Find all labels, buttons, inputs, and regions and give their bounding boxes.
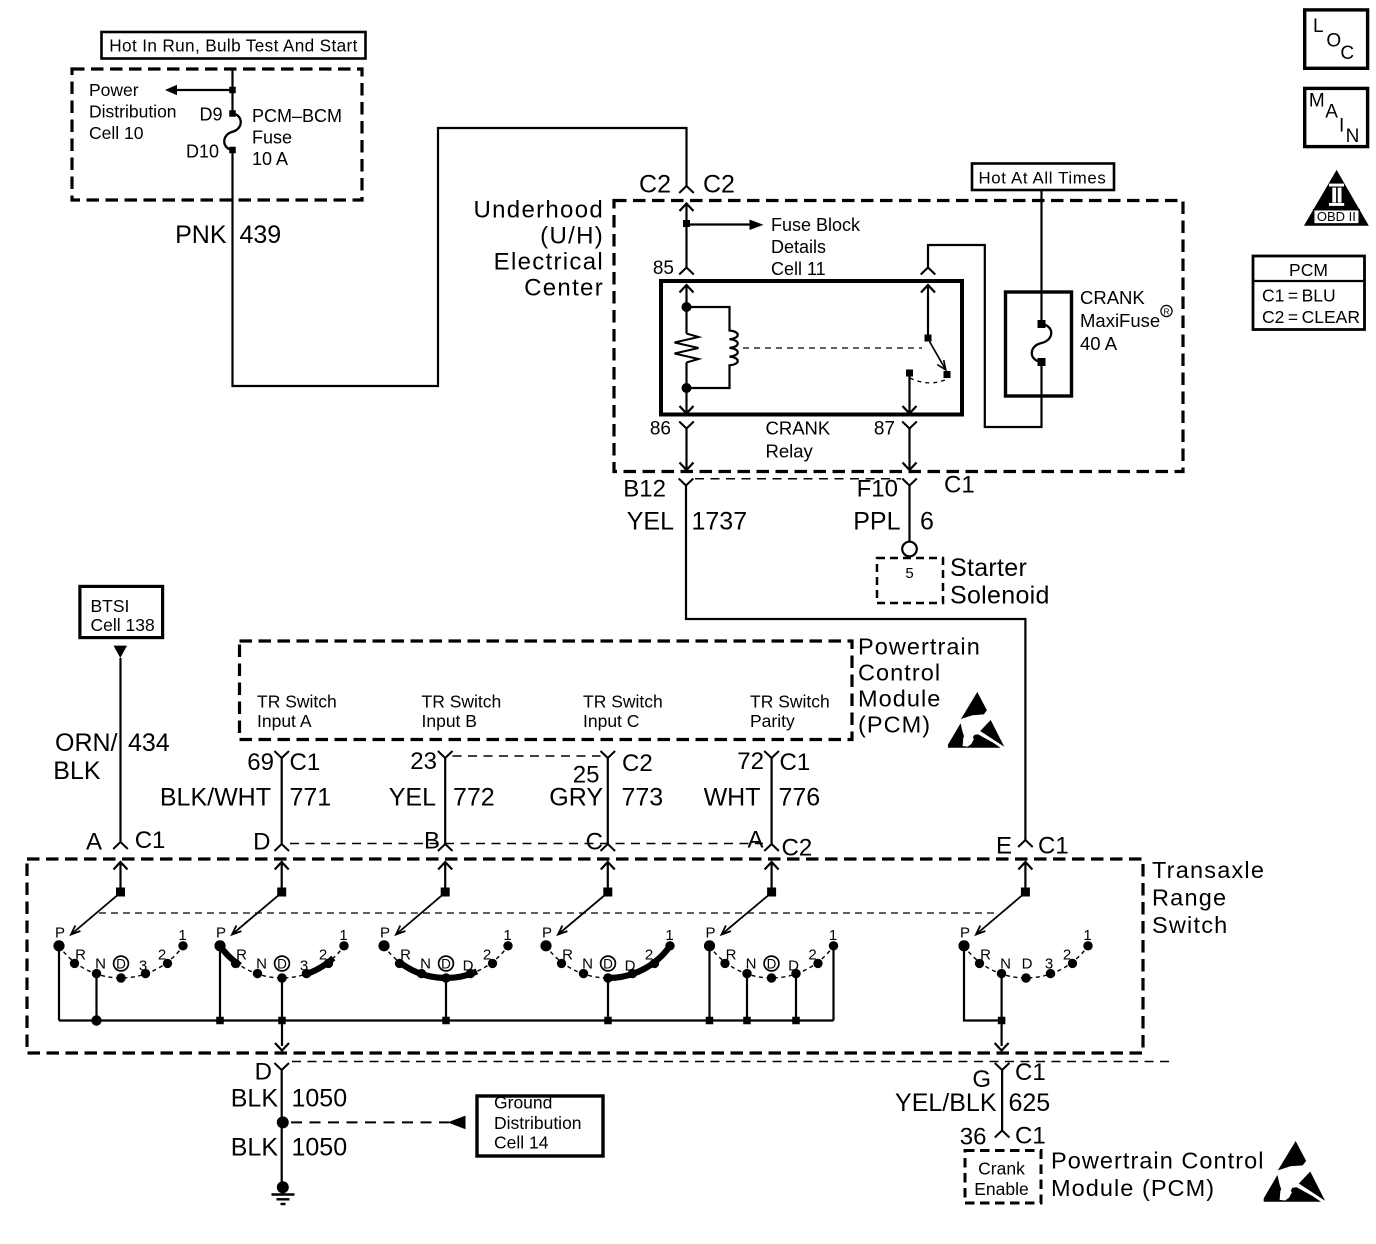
arrowhead exit 86 — [680, 463, 694, 471]
wire YEL/BLK 625 — [1001, 1070, 1003, 1131]
svg-text:C1: C1 — [944, 472, 975, 499]
wire WHT 776 — [770, 758, 772, 844]
svg-text:D: D — [463, 958, 474, 975]
node fuse block tap — [683, 220, 690, 227]
title box Hot In Run, Bulb Test And Start — [102, 32, 366, 59]
label PCM-BCM Fuse 10 A — [252, 106, 342, 169]
terminal D10 — [229, 147, 236, 154]
transaxle range switch dashed box — [27, 859, 1143, 1053]
dashed connector line C2 row — [453, 755, 601, 757]
arrowhead into U/H center — [680, 204, 694, 212]
TRS S2 (input A) wiper arm — [232, 895, 278, 934]
svg-text:TR Switch: TR Switch — [422, 692, 502, 712]
svg-text:D: D — [277, 957, 287, 972]
svg-text:1: 1 — [178, 927, 186, 944]
node S2 P bus junction — [216, 1017, 224, 1025]
node ground splice — [277, 1116, 289, 1128]
label Powertrain Control Module (PCM) — [858, 634, 981, 738]
svg-text:23: 23 — [410, 748, 437, 775]
arrowhead S2 ground exit — [275, 1043, 289, 1051]
svg-text:Crank: Crank — [978, 1159, 1025, 1179]
svg-text:N: N — [746, 956, 757, 973]
svg-text:Cell 138: Cell 138 — [91, 615, 155, 635]
svg-text:YEL: YEL — [389, 784, 436, 812]
svg-text:Module: Module — [858, 686, 941, 712]
svg-text:C1: C1 — [780, 749, 811, 776]
wire S6 P to output — [964, 946, 1002, 1021]
svg-text:C2 = CLEAR: C2 = CLEAR — [1262, 307, 1360, 327]
TRS S3 (input B) wiper arm — [396, 895, 442, 934]
svg-text:GRY: GRY — [549, 784, 603, 812]
relay coil input arrow — [680, 285, 694, 293]
svg-text:Hot In Run, Bulb Test And Star: Hot In Run, Bulb Test And Start — [109, 36, 357, 56]
svg-text:P: P — [960, 925, 970, 942]
TRS S5 (parity) input arrow — [765, 862, 779, 870]
label TR Switch Input A — [257, 692, 337, 732]
TRS S1 (BTSI) input arrow — [114, 862, 128, 870]
svg-text:O: O — [1326, 31, 1341, 52]
svg-text:Parity: Parity — [750, 711, 795, 731]
svg-text:Fuse Block: Fuse Block — [771, 215, 861, 235]
symbol ESD sensitive device bottom — [1264, 1141, 1325, 1202]
arrowhead from BTSI — [114, 646, 128, 658]
svg-text:1050: 1050 — [292, 1085, 348, 1113]
svg-text:P: P — [380, 925, 390, 942]
connector TRS pin E — [1018, 840, 1033, 847]
TRS S4 (input C) position labels — [542, 925, 674, 975]
node S5 D bus junction — [792, 1017, 800, 1025]
svg-text:Enable: Enable — [974, 1179, 1029, 1199]
connector pin 86 — [679, 422, 694, 429]
svg-text:Transaxle: Transaxle — [1152, 857, 1265, 883]
TRS S6 (output) input arrow — [1018, 862, 1032, 870]
node TRS S3 (input B) wiper junction — [441, 888, 450, 897]
node relay contact NO — [906, 370, 913, 377]
TRS S1 (BTSI) wiper arm — [71, 895, 117, 934]
symbol LOC box — [1305, 10, 1368, 68]
label CRANK MaxiFuse 40 A — [1080, 287, 1172, 354]
TRS S2 (input A) terminals — [214, 940, 348, 983]
svg-text:R: R — [400, 947, 411, 964]
svg-text:B12: B12 — [623, 476, 666, 503]
svg-text:Relay: Relay — [766, 441, 814, 462]
node S3 bus junction — [442, 1017, 450, 1025]
svg-text:D9: D9 — [199, 105, 222, 125]
svg-text:Solenoid: Solenoid — [950, 582, 1050, 610]
svg-text:5: 5 — [905, 565, 913, 582]
legend PCM connector colors box — [1253, 256, 1365, 330]
connector pin 85 — [679, 268, 694, 275]
TRS S2 (input A) closed contact segment 2 — [304, 958, 334, 975]
underhood electrical center dashed box — [614, 201, 1183, 472]
TRS S5 (parity) terminals — [704, 940, 838, 983]
svg-text:85: 85 — [653, 258, 674, 279]
svg-text:Input A: Input A — [257, 711, 312, 731]
wire S5 1 to ground bus — [832, 946, 834, 1021]
connector PCM pin 36 male — [995, 1131, 1010, 1138]
svg-text:CRANK: CRANK — [766, 418, 831, 439]
wire S2 P to ground bus — [219, 946, 221, 1021]
arrowhead S6 output exit — [995, 1043, 1009, 1051]
symbol MAIN box — [1305, 88, 1368, 147]
svg-text:434: 434 — [128, 729, 170, 757]
wire ORN/BLK 434 from BTSI to TRS pin A — [119, 658, 121, 842]
svg-text:Center: Center — [524, 275, 604, 302]
svg-text:D: D — [603, 957, 613, 972]
svg-text:D: D — [441, 957, 451, 972]
TRS S2 (input A) position labels — [216, 925, 348, 975]
node relay contact NC — [944, 371, 951, 378]
fuse CRANK MaxiFuse 40A — [1032, 324, 1052, 362]
arrowhead Power Distribution — [165, 85, 177, 95]
svg-text:D10: D10 — [186, 142, 219, 162]
TRS S4 (input C) closed contact segment 1 — [607, 944, 672, 978]
wire S5 P to ground bus — [708, 946, 710, 1021]
dashed mechanical link coil to contacts — [743, 347, 922, 349]
TRS S2 (input A) input arrow — [275, 862, 289, 870]
svg-text:D: D — [767, 957, 777, 972]
svg-text:F10: F10 — [857, 476, 898, 503]
resistor relay coil element — [675, 334, 699, 363]
terminal D9 — [229, 110, 236, 117]
TRS S3 (input B) contact arc dashed — [384, 946, 508, 978]
svg-text:439: 439 — [240, 221, 282, 249]
svg-text:1: 1 — [665, 927, 673, 944]
connector relay common pin — [921, 268, 936, 275]
svg-text:P: P — [542, 925, 552, 942]
svg-text:R: R — [236, 947, 247, 964]
node TRS S5 (parity) wiper junction — [767, 888, 776, 897]
svg-text:40 A: 40 A — [1080, 333, 1118, 354]
label TR Switch Input B — [422, 692, 502, 732]
svg-text:R: R — [1164, 308, 1170, 317]
svg-text:Power: Power — [89, 80, 139, 100]
wire YEL 772 — [444, 758, 446, 844]
svg-text:C1: C1 — [135, 827, 166, 854]
svg-text:10 A: 10 A — [252, 149, 288, 169]
TRS S2 (input A) closed contact segment 1 — [219, 944, 241, 966]
TRS S6 (output) terminals — [958, 940, 1092, 983]
wire GRY 773 — [607, 758, 609, 844]
terminal maxifuse top — [1038, 320, 1046, 328]
wire S5 N to ground bus — [746, 974, 748, 1021]
wire S1 P to ground bus — [58, 946, 60, 1021]
svg-text:TR Switch: TR Switch — [257, 692, 337, 712]
wire S6 output exit — [1000, 1021, 1002, 1047]
svg-text:Powertrain Control: Powertrain Control — [1051, 1148, 1265, 1174]
svg-text:C: C — [586, 829, 603, 856]
svg-text:C1: C1 — [1015, 1123, 1046, 1150]
crank enable dashed box — [965, 1151, 1041, 1204]
svg-text:72: 72 — [737, 748, 764, 775]
svg-text:N: N — [1346, 126, 1360, 147]
svg-text:86: 86 — [650, 419, 671, 440]
TRS S5 (parity) wiper arm — [722, 895, 769, 934]
svg-text:772: 772 — [453, 784, 495, 812]
svg-text:2: 2 — [808, 947, 816, 964]
svg-text:Distribution: Distribution — [494, 1113, 582, 1133]
svg-text:(U/H): (U/H) — [540, 223, 604, 250]
svg-text:ORN/: ORN/ — [55, 729, 118, 757]
symbol OBD II triangle — [1304, 170, 1369, 226]
svg-text:A: A — [1325, 102, 1338, 123]
svg-text:87: 87 — [874, 419, 895, 440]
svg-text:Powertrain: Powertrain — [858, 634, 981, 660]
label Starter Solenoid — [950, 554, 1050, 610]
wire PNK 439 from fuse D10 to U/H electrical center — [233, 128, 687, 386]
svg-text:C2: C2 — [639, 171, 671, 199]
svg-text:3: 3 — [300, 958, 308, 975]
wire BLK 1050 upper — [281, 1070, 283, 1186]
terminal starter solenoid ring — [902, 542, 917, 557]
svg-text:YEL/BLK: YEL/BLK — [895, 1089, 997, 1117]
svg-text:625: 625 — [1009, 1089, 1051, 1117]
connector TRS pin C — [601, 844, 616, 851]
TRS S5 (parity) contact arc dashed — [709, 946, 833, 978]
svg-text:PPL: PPL — [853, 508, 900, 536]
svg-text:N: N — [256, 956, 267, 973]
svg-text:Details: Details — [771, 237, 826, 257]
connector TRS pin D — [274, 844, 289, 851]
svg-text:C2: C2 — [622, 750, 653, 777]
svg-text:D: D — [253, 829, 270, 856]
wire S1 N to ground bus — [95, 974, 97, 1021]
TRS S3 (input B) position labels — [380, 925, 512, 975]
svg-text:C2: C2 — [703, 171, 735, 199]
wire S3 D to ground bus — [445, 978, 447, 1021]
label CRANK Relay — [766, 418, 831, 462]
wire arrow to Power Distribution — [177, 89, 233, 91]
starter solenoid dashed box — [877, 558, 943, 603]
TRS S1 (BTSI) contact arc dashed — [59, 946, 183, 978]
svg-text:P: P — [705, 925, 715, 942]
svg-text:L: L — [1313, 16, 1324, 37]
svg-text:1050: 1050 — [292, 1134, 348, 1162]
wire pin 87 to F10 — [908, 429, 910, 471]
svg-text:BLK: BLK — [53, 757, 101, 785]
label Transaxle Range Switch — [1152, 857, 1265, 938]
node S1 N bus junction — [91, 1015, 101, 1025]
wire hot at all times to maxifuse — [1040, 190, 1042, 324]
dashed connector line bottom row — [292, 1061, 1173, 1063]
svg-text:C1: C1 — [290, 749, 321, 776]
connector TRS pin B — [438, 844, 453, 851]
wire S6 N to output — [1000, 974, 1002, 1021]
svg-text:1: 1 — [339, 927, 347, 944]
wire C2 to relay pin 85 — [685, 204, 687, 268]
connector ground pin D female — [274, 1063, 289, 1070]
svg-text:6: 6 — [920, 508, 934, 536]
svg-text:Fuse: Fuse — [252, 128, 292, 148]
arrowhead fuse block details — [750, 220, 764, 231]
connector pin G female — [995, 1063, 1010, 1070]
wire S4 D to ground bus — [607, 978, 609, 1021]
label Power Distribution Cell 10 — [89, 80, 177, 143]
label Underhood (U/H) Electrical Center — [474, 197, 604, 302]
svg-text:D: D — [255, 1059, 272, 1086]
svg-text:C1: C1 — [1015, 1059, 1046, 1086]
reference box BTSI Cell 138 — [80, 586, 163, 637]
power distribution fuse block dashed box — [72, 69, 362, 200]
svg-text:N: N — [420, 956, 431, 973]
connector PCM pin 25 — [601, 751, 616, 758]
TRS S2 (input A) contact arc dashed — [220, 946, 344, 978]
node S4 bus junction — [604, 1017, 612, 1025]
TRS S6 (output) wiper arm — [976, 895, 1022, 934]
svg-text:N: N — [95, 956, 106, 973]
svg-text:3: 3 — [1045, 956, 1053, 973]
svg-text:69: 69 — [247, 749, 274, 776]
wire relay pin85 to resistor — [685, 285, 687, 334]
svg-text:R: R — [980, 947, 991, 964]
svg-text:CRANK: CRANK — [1080, 287, 1145, 308]
svg-text:2: 2 — [319, 947, 327, 964]
svg-text:1: 1 — [503, 927, 511, 944]
svg-text:2: 2 — [158, 947, 166, 964]
svg-text:OBD II: OBD II — [1317, 209, 1356, 224]
wire YEL 1737 from B12 to TRS pin E — [686, 486, 1025, 841]
svg-text:A: A — [86, 829, 102, 856]
connector C2 male half — [679, 186, 694, 193]
node junction to power distribution — [229, 87, 236, 94]
connector TRS pin A — [764, 844, 779, 851]
arrowhead to pin 87 — [903, 406, 917, 414]
svg-text:2: 2 — [483, 947, 491, 964]
svg-text:I: I — [1339, 116, 1344, 137]
node relay switch pivot — [925, 335, 932, 342]
connector TRS pin A (BTSI) — [113, 842, 128, 849]
svg-text:773: 773 — [622, 784, 664, 812]
dashed wiper common line inside TRS — [99, 912, 995, 914]
svg-text:BLK: BLK — [231, 1134, 279, 1162]
wire maxifuse to relay common — [928, 245, 1042, 427]
svg-text:Underhood: Underhood — [474, 197, 604, 224]
svg-text:D: D — [625, 958, 636, 975]
wire S2 D to ground exit — [281, 978, 283, 1046]
svg-text:(PCM): (PCM) — [858, 712, 931, 738]
connector F10 female half — [902, 479, 917, 486]
TRS S3 (input B) terminals — [378, 940, 512, 983]
svg-text:YEL: YEL — [627, 508, 674, 536]
svg-text:C1 = BLU: C1 = BLU — [1262, 286, 1336, 306]
connector pin 87 — [902, 422, 917, 429]
title box Hot At All Times — [972, 164, 1114, 191]
svg-text:D: D — [788, 958, 799, 975]
svg-text:Switch: Switch — [1152, 912, 1228, 938]
wire from edge to fuse D9 — [231, 69, 233, 114]
svg-text:P: P — [55, 925, 65, 942]
svg-text:Hot At All Times: Hot At All Times — [979, 169, 1107, 188]
svg-text:C: C — [1340, 43, 1354, 64]
connector PCM pin 72 — [764, 751, 779, 758]
TRS S4 (input C) contact arc dashed — [546, 946, 670, 978]
svg-text:PCM–BCM: PCM–BCM — [252, 106, 342, 126]
svg-text:Input B: Input B — [422, 711, 477, 731]
TRS S1 (BTSI) terminals — [53, 940, 187, 983]
svg-text:R: R — [562, 947, 573, 964]
ground bus wire inside TRS — [59, 1019, 834, 1021]
TRS S4 (input C) terminals — [540, 940, 674, 983]
svg-text:N: N — [582, 956, 593, 973]
relay common input arrow — [921, 285, 935, 293]
fuse PCM-BCM 10A — [224, 114, 241, 151]
TRS S6 (output) contact arc dashed — [964, 946, 1088, 978]
svg-text:1737: 1737 — [692, 508, 748, 536]
svg-text:BLK: BLK — [231, 1085, 279, 1113]
node S2 D bus junction — [278, 1017, 286, 1025]
svg-text:R: R — [726, 947, 737, 964]
svg-text:Electrical: Electrical — [494, 249, 604, 276]
svg-text:Module (PCM): Module (PCM) — [1051, 1175, 1215, 1201]
terminal maxifuse bottom — [1038, 358, 1046, 366]
wire relay contact to pin 87 — [908, 373, 910, 414]
wire resistor to bottom node — [685, 363, 687, 389]
svg-text:Distribution: Distribution — [89, 102, 177, 122]
wire PPL 6 to starter solenoid — [908, 486, 910, 542]
svg-text:C1: C1 — [1038, 833, 1069, 860]
svg-text:1: 1 — [829, 927, 837, 944]
svg-text:BTSI: BTSI — [91, 596, 130, 616]
dashed contact travel arc — [910, 378, 946, 383]
svg-text:Control: Control — [858, 660, 941, 686]
svg-text:TR Switch: TR Switch — [583, 692, 663, 712]
svg-text:M: M — [1309, 91, 1325, 112]
svg-text:A: A — [747, 827, 763, 854]
svg-text:776: 776 — [779, 784, 821, 812]
label TR Switch Parity — [750, 692, 830, 732]
reference box Ground Distribution Cell 14 — [477, 1093, 603, 1157]
relay coil output arrow — [685, 388, 687, 414]
svg-text:Starter: Starter — [950, 554, 1027, 582]
TRS S1 (BTSI) position labels — [55, 925, 187, 975]
svg-text:3: 3 — [139, 958, 147, 975]
TRS S3 (input B) closed contact segment 1 — [399, 962, 477, 978]
arrowhead ground distribution reference — [448, 1116, 466, 1130]
svg-text:36: 36 — [960, 1124, 987, 1151]
svg-text:2: 2 — [1063, 947, 1071, 964]
svg-text:Range: Range — [1152, 885, 1227, 911]
svg-text:TR Switch: TR Switch — [750, 692, 830, 712]
svg-text:2: 2 — [645, 947, 653, 964]
node TRS S1 (BTSI) wiper junction — [116, 888, 125, 897]
svg-text:WHT: WHT — [704, 784, 761, 812]
powertrain control module dashed box — [240, 641, 853, 740]
dashed reference line to ground distribution — [291, 1121, 449, 1123]
svg-text:N: N — [1000, 956, 1011, 973]
wire relay switch common — [927, 285, 929, 338]
node S6 output junction — [998, 1017, 1006, 1025]
label TR Switch Input C — [583, 692, 663, 732]
arrowhead exit 87 — [903, 463, 917, 471]
svg-text:P: P — [216, 925, 226, 942]
svg-text:Ground: Ground — [494, 1093, 552, 1113]
node TRS S6 (output) wiper junction — [1021, 888, 1030, 897]
svg-text:MaxiFuse: MaxiFuse — [1080, 310, 1160, 331]
connector PCM pin 69 — [274, 751, 289, 758]
wire to fuse block details — [690, 223, 750, 225]
ground G107 symbol — [272, 1181, 295, 1204]
svg-text:771: 771 — [290, 784, 332, 812]
CRANK MaxiFuse box — [1006, 292, 1072, 396]
node relay coil top — [682, 302, 692, 312]
svg-text:1: 1 — [1083, 927, 1091, 944]
svg-text:Cell 10: Cell 10 — [89, 123, 144, 143]
node TRS S4 (input C) wiper junction — [603, 888, 612, 897]
svg-text:Cell 11: Cell 11 — [771, 259, 826, 279]
TRS S5 (parity) position labels — [705, 925, 837, 975]
label Crank Enable — [974, 1159, 1029, 1200]
node S5 P bus junction — [706, 1017, 714, 1025]
